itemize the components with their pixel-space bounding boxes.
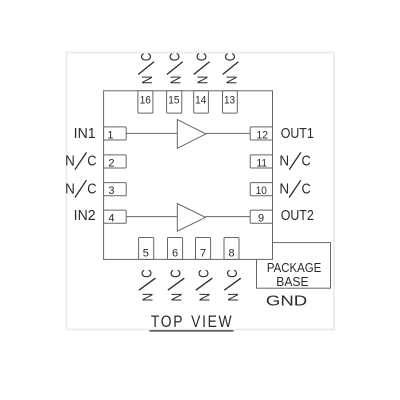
svg-text:C: C xyxy=(167,53,184,62)
svg-text:C: C xyxy=(193,53,210,62)
svg-text:OUT1: OUT1 xyxy=(281,125,314,142)
svg-text:BASE: BASE xyxy=(276,275,308,289)
svg-text:7: 7 xyxy=(200,247,206,259)
pin 3 pad xyxy=(104,183,127,196)
svg-text:C: C xyxy=(167,269,184,278)
pin 8 pad xyxy=(224,238,239,260)
title TOP VIEW xyxy=(150,313,234,331)
pin 12 pad xyxy=(250,127,272,140)
label N/C pin11 xyxy=(279,152,311,169)
svg-text:C: C xyxy=(224,269,241,278)
svg-text:N: N xyxy=(65,181,75,198)
svg-text:N: N xyxy=(139,76,156,85)
figure border frame xyxy=(67,53,335,330)
package base pad xyxy=(257,243,331,289)
svg-text:14: 14 xyxy=(195,94,206,106)
op-amp U2 xyxy=(177,204,205,232)
pin 2 pad xyxy=(104,155,127,168)
svg-text:OUT2: OUT2 xyxy=(281,207,314,224)
svg-text:12: 12 xyxy=(256,129,268,141)
svg-text:5: 5 xyxy=(143,247,149,259)
svg-text:C: C xyxy=(195,269,212,278)
pin 11 pad xyxy=(250,155,272,168)
pin 15 pad xyxy=(167,91,182,113)
pin 10 pad xyxy=(250,183,272,196)
label N/C pin8 (vertical) xyxy=(224,269,242,301)
pin 7 pad xyxy=(196,238,211,260)
svg-text:C: C xyxy=(138,53,155,62)
pin 1 pad xyxy=(104,127,127,140)
svg-text:C: C xyxy=(302,153,311,170)
svg-text:TOP VIEW: TOP VIEW xyxy=(151,313,233,331)
svg-text:PACKAGE: PACKAGE xyxy=(267,261,321,275)
label N/C pin10 xyxy=(279,180,311,197)
svg-text:8: 8 xyxy=(229,247,235,259)
svg-text:10: 10 xyxy=(256,185,267,197)
svg-text:N: N xyxy=(65,153,75,170)
label N/C pin3 xyxy=(65,180,97,197)
svg-text:IN2: IN2 xyxy=(74,207,96,224)
svg-text:15: 15 xyxy=(168,94,179,106)
wire op-amp U2 output to pin9 xyxy=(206,216,251,218)
svg-text:IN1: IN1 xyxy=(74,125,96,142)
pin 14 pad xyxy=(194,91,209,113)
svg-text:C: C xyxy=(222,53,239,62)
wire pin4 to op-amp U2 input xyxy=(126,216,177,218)
svg-text:C: C xyxy=(87,181,96,198)
label PACKAGE BASE xyxy=(267,261,321,289)
svg-text:N: N xyxy=(140,293,157,302)
svg-text:N: N xyxy=(168,76,185,85)
svg-text:13: 13 xyxy=(224,94,235,106)
svg-text:16: 16 xyxy=(140,94,151,106)
label N/C pin16 (vertical) xyxy=(138,53,156,85)
label N/C pin2 xyxy=(65,152,97,169)
label N/C pin13 (vertical) xyxy=(222,53,240,85)
pin 16 pad xyxy=(138,91,153,113)
svg-text:N: N xyxy=(169,293,186,302)
label N/C pin5 (vertical) xyxy=(138,269,156,301)
svg-text:3: 3 xyxy=(108,185,114,197)
svg-text:N: N xyxy=(223,76,240,85)
package body xyxy=(104,91,273,260)
label N/C pin14 (vertical) xyxy=(193,53,211,85)
pin 4 pad xyxy=(104,210,127,223)
op-amp U1 xyxy=(177,120,206,149)
pin 13 pad xyxy=(223,91,238,113)
svg-text:N: N xyxy=(279,153,289,170)
svg-text:C: C xyxy=(138,269,155,278)
svg-text:6: 6 xyxy=(172,247,178,259)
svg-text:4: 4 xyxy=(108,212,114,224)
svg-text:2: 2 xyxy=(108,157,114,169)
label N/C pin15 (vertical) xyxy=(167,53,185,85)
pin 9 pad xyxy=(250,210,272,223)
svg-text:C: C xyxy=(87,153,96,170)
svg-text:N: N xyxy=(279,181,289,198)
svg-text:N: N xyxy=(197,293,214,302)
wire pin1 to op-amp U1 input xyxy=(126,132,177,134)
svg-text:N: N xyxy=(225,293,242,302)
svg-text:9: 9 xyxy=(258,212,264,224)
svg-text:GND: GND xyxy=(266,292,307,309)
wire op-amp U1 output to pin12 xyxy=(206,132,250,134)
pin 6 pad xyxy=(168,238,183,260)
svg-text:N: N xyxy=(195,76,212,85)
pin 5 pad xyxy=(139,238,154,260)
label N/C pin7 (vertical) xyxy=(195,269,213,301)
svg-text:1: 1 xyxy=(107,129,113,141)
label N/C pin6 (vertical) xyxy=(167,269,185,301)
svg-text:11: 11 xyxy=(257,157,268,169)
svg-text:C: C xyxy=(302,181,311,198)
